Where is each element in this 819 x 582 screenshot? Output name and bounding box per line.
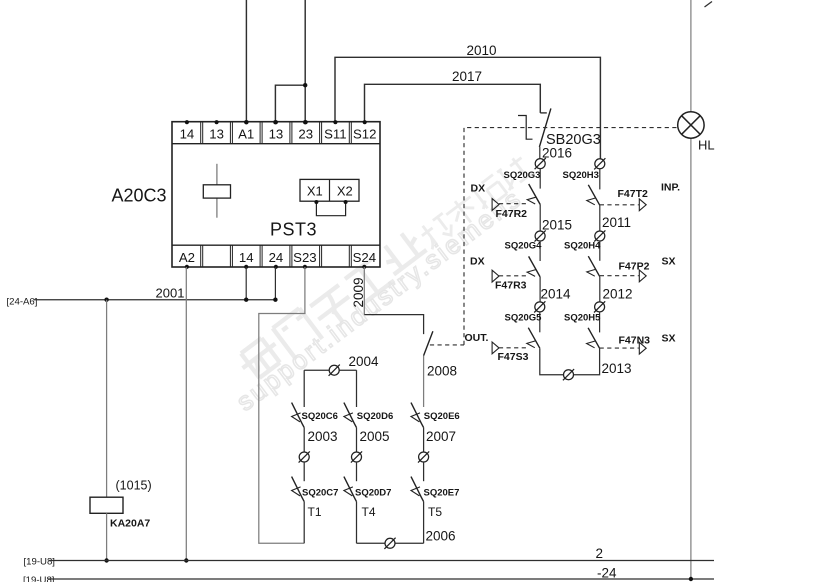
terminal circle H row3 [594,301,605,312]
dashed link to contact 2008 [430,344,464,346]
svg-text:OUT.: OUT. [465,332,489,344]
lamp HL [678,0,715,579]
svg-text:SQ20G3: SQ20G3 [504,170,541,181]
svg-text:14: 14 [239,250,254,265]
svg-text:F47R3: F47R3 [495,280,527,292]
wire 2006 [357,529,456,544]
label A20C3 [112,186,167,206]
svg-text:T5: T5 [428,505,442,519]
pin labels bottom row A2 14 24 S23 S24 [179,250,376,269]
svg-text:HL: HL [698,138,715,153]
relay coil KA20A7 [90,300,152,563]
terminal circle H top [594,158,605,169]
svg-text:SQ20H4: SQ20H4 [564,240,601,251]
svg-text:13: 13 [269,126,284,141]
svg-text:T4: T4 [362,505,376,519]
svg-text:SQ20H3: SQ20H3 [563,170,599,181]
cable arrow F47R2 [471,183,528,220]
svg-text:13: 13 [209,126,224,141]
svg-text:2005: 2005 [360,429,390,444]
label PST3 [270,220,317,240]
bus wire -24 [48,566,714,582]
cable arrow F47P2 [600,256,676,282]
terminal circle bottom loop [563,369,574,380]
svg-text:SQ20H5: SQ20H5 [564,313,601,324]
svg-text:INP.: INP. [661,182,680,194]
limit switch SQ20G5 [505,312,543,349]
svg-text:F47T2: F47T2 [618,188,649,200]
X1 X2 terminal box [300,179,359,201]
cable arrow F47S3 [465,332,529,363]
bus wire 2 [49,546,714,561]
svg-text:A1: A1 [238,126,254,141]
wire from S23 left loop [259,267,305,543]
node T1 [304,502,322,544]
pushbutton SB20G3 [518,108,601,158]
limit switch SQ20C7 [292,462,339,502]
terminal circle T5 [418,451,429,462]
svg-text:SQ20C6: SQ20C6 [302,411,338,422]
svg-text:F47N3: F47N3 [619,335,651,347]
limit switch SQ20H5 [564,312,601,349]
svg-text:-24: -24 [597,566,617,581]
svg-text:[24-A6]: [24-A6] [7,297,38,308]
svg-text:2014: 2014 [541,287,572,302]
pin labels top row 14 13 A1 13 23 S11 S12 [180,120,377,141]
cable arrow F47T2 [600,182,680,211]
svg-text:2015: 2015 [542,218,572,233]
svg-text:2011: 2011 [602,215,631,230]
wire 2013 bottom loop [540,348,632,376]
svg-text:S11: S11 [324,126,347,141]
wire to 23 from top [303,0,307,124]
jumper X1-X2 [314,200,347,216]
svg-text:2010: 2010 [467,43,497,58]
svg-text:2007: 2007 [426,429,456,444]
svg-text:(1015): (1015) [116,479,152,493]
limit switch SQ20E6 [411,403,460,428]
limit switch SQ20G4 [505,241,543,277]
terminal circle T1 [299,451,310,462]
svg-text:S24: S24 [353,250,376,265]
svg-text:2013: 2013 [602,361,632,376]
terminal circle 2006 [384,538,395,549]
node T5 [424,502,443,544]
wire 2004 [304,354,379,370]
svg-text:SQ20C7: SQ20C7 [302,488,338,499]
svg-text:S12: S12 [353,126,376,141]
limit switch SQ20H4 [564,240,601,276]
wire 2009 [351,267,366,315]
wire 2011 [600,205,631,231]
terminal circle G row2 [535,230,546,241]
wire 2014 [540,277,571,302]
svg-text:2001: 2001 [156,286,185,301]
limit switch SQ20H3 [563,168,600,205]
svg-text:SQ20E6: SQ20E6 [424,411,460,422]
svg-text:2006: 2006 [426,529,456,544]
wire 2012 [600,277,633,302]
limit switch SQ20E7 [411,462,459,502]
terminal circle H row2 [594,230,605,241]
wire 2007 [424,428,456,452]
svg-text:SQ20E7: SQ20E7 [424,488,460,499]
svg-text:T1: T1 [308,505,322,519]
terminal circle T4 [351,451,362,462]
svg-text:2: 2 [596,546,604,561]
svg-text:2003: 2003 [308,429,338,444]
svg-text:F47S3: F47S3 [498,351,529,363]
wire 2016 [542,146,572,161]
svg-text:A20C3: A20C3 [112,186,167,206]
svg-text:[19-U8]: [19-U8] [24,557,55,568]
wire A2 to bus [184,267,188,563]
wire 2010 [335,43,600,159]
svg-text:S23: S23 [293,250,316,265]
dashed link lamp boundary [464,128,678,345]
wire branch to 13 [273,83,307,124]
svg-text:SQ20D6: SQ20D6 [357,411,393,422]
svg-text:F47P2: F47P2 [619,261,650,273]
wire 2015 [540,205,572,233]
terminal circle 2004 [329,365,340,376]
svg-text:2009: 2009 [351,277,366,307]
svg-text:23: 23 [298,126,313,141]
svg-text:SQ20G4: SQ20G4 [505,241,543,252]
svg-text:X1: X1 [307,184,323,199]
svg-text:SX: SX [662,333,676,345]
svg-text:SX: SX [662,256,676,268]
svg-text:2016: 2016 [542,146,572,161]
limit switch SQ20G3 [504,168,541,204]
svg-text:X2: X2 [337,184,353,199]
limit switch SQ20D6 [344,370,393,427]
wire to A1 from top [244,0,248,124]
svg-text:2017: 2017 [452,69,482,84]
terminal circle G row3 [534,301,545,312]
wire 2001 [34,267,278,302]
svg-text:SQ20D7: SQ20D7 [355,488,391,499]
svg-text:14: 14 [180,126,195,141]
svg-text:2008: 2008 [427,364,457,379]
limit switch SQ20C6 [292,370,338,427]
wire 2003 [304,428,337,452]
svg-text:F47R2: F47R2 [496,208,528,220]
svg-text:PST3: PST3 [270,220,317,240]
wire 2005 [357,428,390,452]
svg-text:2012: 2012 [603,287,633,302]
svg-text:2004: 2004 [349,354,380,369]
relay module A20C3 (PST3) [172,122,380,267]
wire 2017 [365,69,541,122]
svg-text:SQ20G5: SQ20G5 [505,312,543,323]
svg-text:24: 24 [269,250,284,265]
node 19-U9 [23,575,54,582]
terminal circle G top [535,158,546,169]
cable arrow F47N3 [600,333,676,355]
limit switch SQ20D7 [344,462,392,502]
contact 2008 (linked to SB20G3) [364,315,457,407]
coil symbol inside A20C3 [203,164,230,218]
node T4 [357,502,376,544]
svg-text:DX: DX [471,183,486,195]
node 19-U8 [24,557,55,568]
node 24-A6 [7,297,38,308]
svg-text:DX: DX [470,256,485,268]
cable arrow F47R3 [470,256,527,292]
svg-text:KA20A7: KA20A7 [110,518,150,530]
svg-text:A2: A2 [179,250,195,265]
